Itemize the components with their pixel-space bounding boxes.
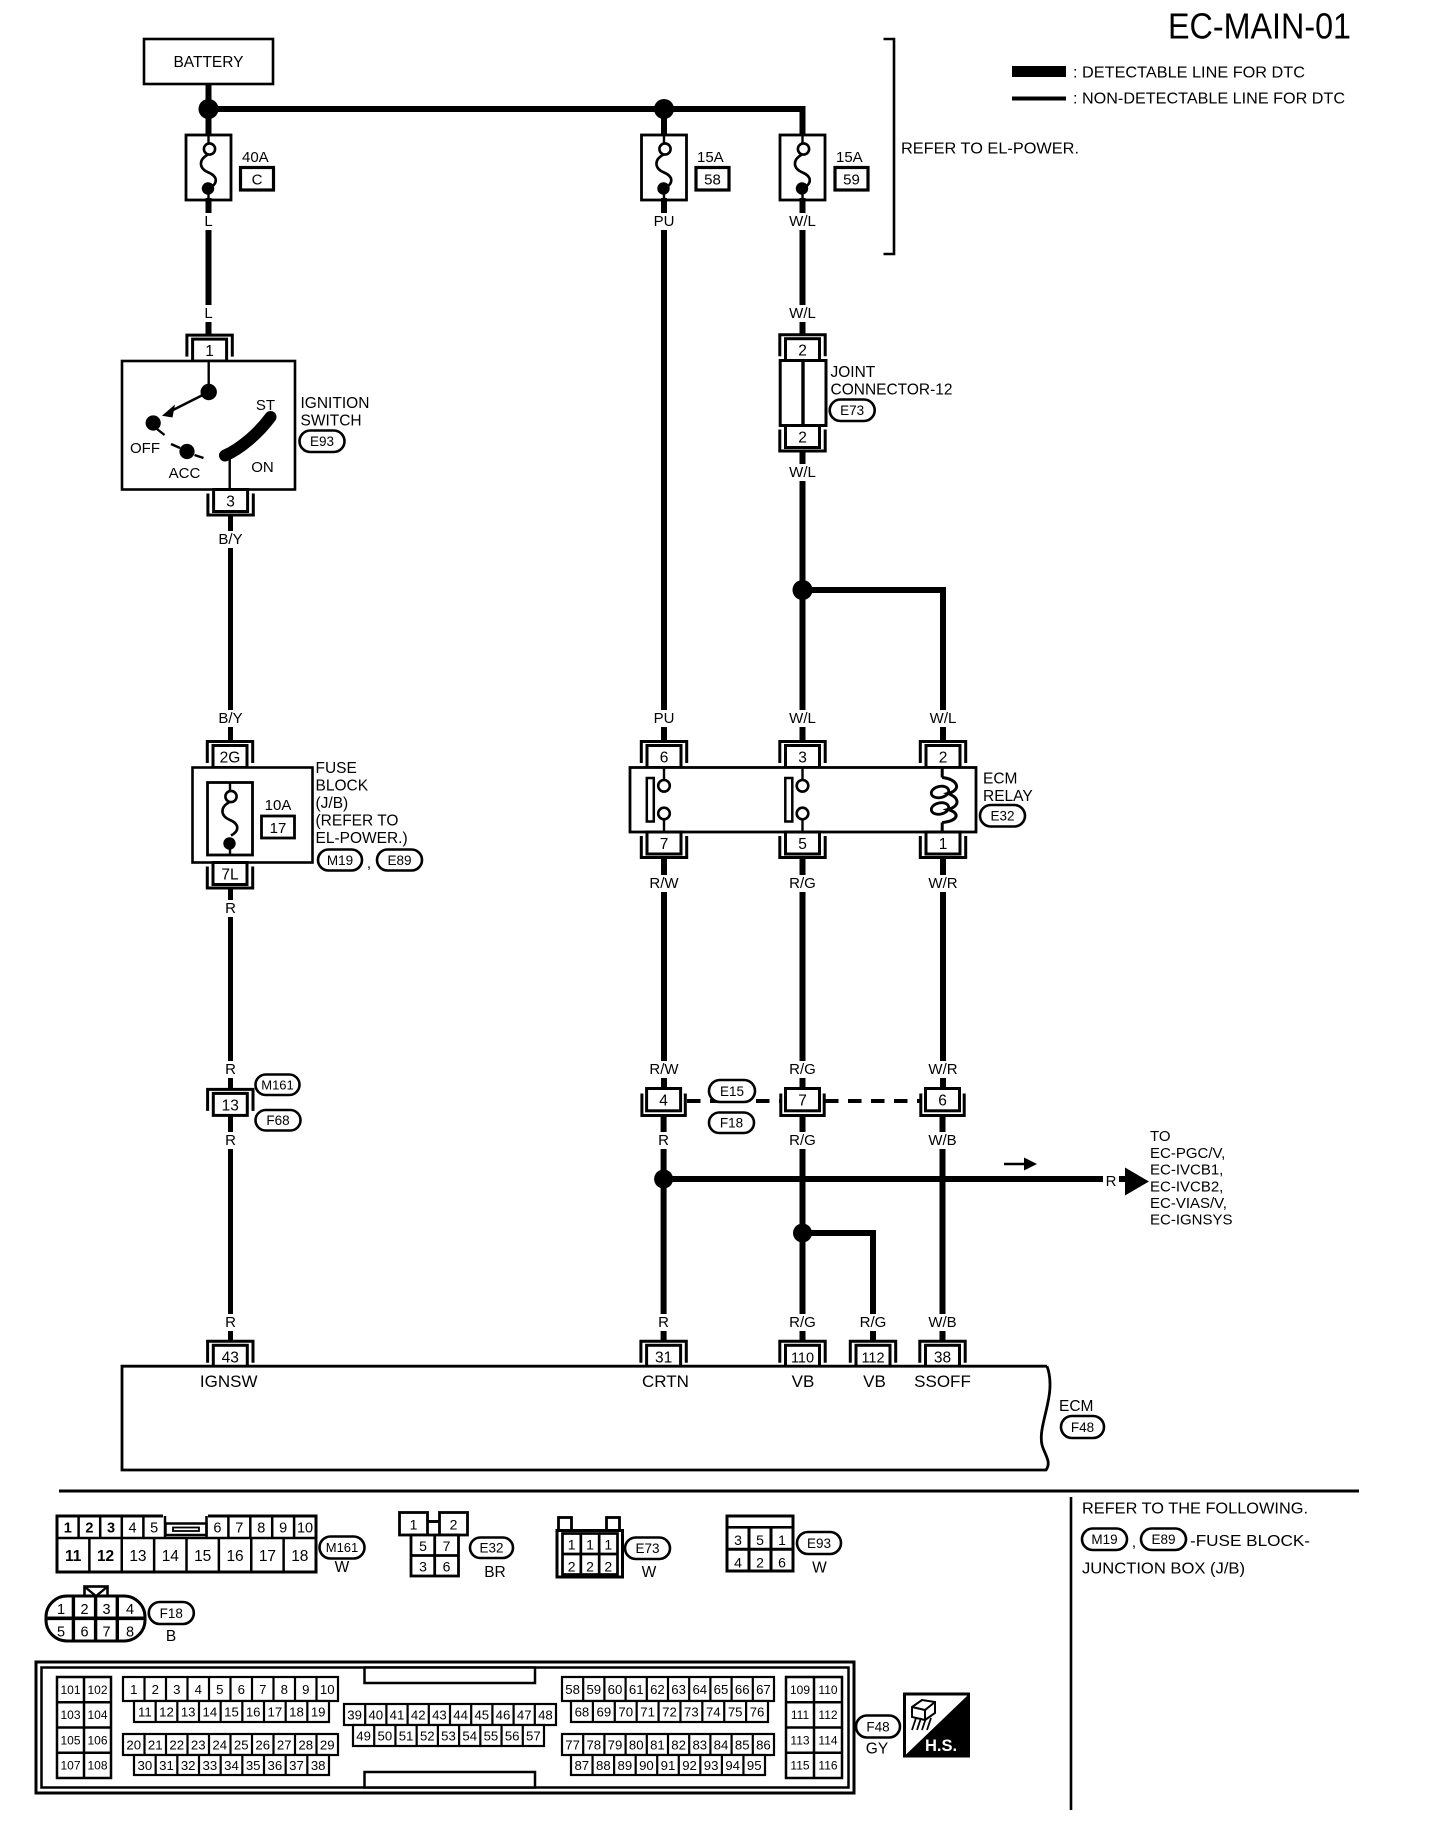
svg-text:71: 71 bbox=[640, 1704, 655, 1719]
svg-text:60: 60 bbox=[608, 1682, 623, 1697]
label oval E15 bbox=[709, 1080, 755, 1102]
svg-text:116: 116 bbox=[818, 1759, 837, 1773]
svg-text:47: 47 bbox=[517, 1707, 532, 1722]
svg-text:ST: ST bbox=[256, 397, 275, 414]
svg-text:7: 7 bbox=[443, 1538, 451, 1554]
svg-text:76: 76 bbox=[750, 1704, 765, 1719]
svg-text:14: 14 bbox=[162, 1548, 180, 1565]
svg-text:(REFER TO: (REFER TO bbox=[316, 813, 399, 830]
svg-text:59: 59 bbox=[843, 172, 860, 189]
ECM relay pin 5 bbox=[786, 832, 820, 854]
wire label W/L (below joint connector) bbox=[787, 464, 818, 481]
connector E73 pinout bbox=[559, 1518, 572, 1532]
svg-text:67: 67 bbox=[756, 1682, 771, 1697]
ECM pin 43 bbox=[208, 1341, 253, 1363]
svg-text:2: 2 bbox=[152, 1682, 159, 1697]
svg-text:24: 24 bbox=[212, 1737, 227, 1752]
svg-text:JUNCTION BOX (J/B): JUNCTION BOX (J/B) bbox=[1082, 1561, 1245, 1578]
svg-text:55: 55 bbox=[484, 1728, 499, 1743]
svg-text:W: W bbox=[335, 1559, 350, 1576]
svg-text:58: 58 bbox=[704, 172, 721, 189]
svg-text:PU: PU bbox=[654, 213, 675, 230]
svg-text:16: 16 bbox=[246, 1704, 261, 1719]
svg-text:89: 89 bbox=[618, 1758, 633, 1773]
wire label B/Y (lower) bbox=[215, 710, 246, 727]
svg-text:TO: TO bbox=[1150, 1128, 1171, 1145]
svg-text:62: 62 bbox=[650, 1682, 665, 1697]
svg-text:4: 4 bbox=[129, 1521, 137, 1537]
svg-text:B/Y: B/Y bbox=[218, 710, 242, 727]
svg-text:78: 78 bbox=[586, 1737, 601, 1752]
label oval E89 (footer) bbox=[1141, 1529, 1186, 1551]
svg-text:44: 44 bbox=[453, 1707, 468, 1722]
wire label R (below connector 13) bbox=[223, 1132, 237, 1149]
ECM pin 112 bbox=[850, 1341, 895, 1363]
svg-text:115: 115 bbox=[790, 1759, 809, 1773]
svg-text:IGNSW: IGNSW bbox=[200, 1372, 258, 1391]
svg-text:ECM: ECM bbox=[1059, 1398, 1093, 1415]
ignition switch OFF contact bbox=[146, 415, 161, 430]
svg-text:59: 59 bbox=[586, 1682, 601, 1697]
svg-text:2: 2 bbox=[756, 1555, 764, 1571]
label oval E32 (pinout) bbox=[470, 1538, 513, 1559]
svg-text:6: 6 bbox=[238, 1682, 245, 1697]
wire L fuse C to ignition switch bbox=[206, 198, 212, 336]
svg-text:: NON-DETECTABLE LINE FOR DTC: : NON-DETECTABLE LINE FOR DTC bbox=[1073, 91, 1345, 108]
svg-text:114: 114 bbox=[818, 1733, 837, 1747]
svg-text:FUSE: FUSE bbox=[316, 760, 357, 777]
svg-text:R: R bbox=[225, 1132, 236, 1149]
flow arrow small bbox=[1004, 1163, 1024, 1166]
svg-text:42: 42 bbox=[411, 1707, 426, 1722]
svg-text:M161: M161 bbox=[261, 1077, 294, 1092]
svg-text:33: 33 bbox=[202, 1758, 217, 1773]
junction node battery-left bbox=[199, 99, 219, 119]
svg-text:56: 56 bbox=[505, 1728, 520, 1743]
svg-text:M161: M161 bbox=[326, 1540, 359, 1555]
svg-text:RELAY: RELAY bbox=[983, 788, 1033, 805]
divider line bottom right bbox=[1070, 1497, 1073, 1810]
wire label L (lower) bbox=[201, 305, 215, 322]
label oval F48 (ECM) bbox=[1061, 1416, 1104, 1438]
svg-text:31: 31 bbox=[159, 1758, 174, 1773]
svg-text:R: R bbox=[1106, 1173, 1117, 1190]
svg-text:73: 73 bbox=[684, 1704, 699, 1719]
svg-text:5: 5 bbox=[798, 836, 807, 853]
svg-text:53: 53 bbox=[441, 1728, 456, 1743]
ECM relay pin 7 bbox=[647, 832, 681, 854]
svg-text:17: 17 bbox=[270, 820, 287, 837]
svg-text:EC-MAIN-01: EC-MAIN-01 bbox=[1168, 6, 1351, 47]
svg-text:E93: E93 bbox=[310, 434, 334, 449]
svg-text:E15: E15 bbox=[720, 1084, 744, 1099]
wire label R/G (upper) bbox=[787, 875, 818, 892]
ECM pin 38 bbox=[920, 1341, 965, 1363]
svg-text:103: 103 bbox=[60, 1708, 80, 1722]
wire label W/L (below fuse 59) bbox=[787, 213, 818, 230]
svg-text:2: 2 bbox=[85, 1521, 93, 1537]
svg-text:VB: VB bbox=[863, 1372, 886, 1391]
svg-text:3: 3 bbox=[226, 494, 235, 511]
label oval E89 (fuse block) bbox=[377, 850, 422, 871]
svg-text:86: 86 bbox=[756, 1737, 771, 1752]
svg-text:7L: 7L bbox=[221, 867, 239, 884]
ECM relay pin 1 bbox=[926, 832, 960, 854]
joint connector pin 2 (top) bbox=[780, 335, 825, 357]
svg-text:EC-PGC/V,: EC-PGC/V, bbox=[1150, 1145, 1225, 1162]
svg-text:E89: E89 bbox=[387, 853, 411, 868]
svg-text:3: 3 bbox=[798, 750, 807, 767]
fuse 58 id box bbox=[696, 168, 729, 191]
wire label R (above ECM pin 31) bbox=[656, 1314, 670, 1331]
wire bus to fuse 58 bbox=[661, 109, 667, 136]
svg-text:ACC: ACC bbox=[169, 465, 201, 482]
svg-text:12: 12 bbox=[97, 1548, 114, 1565]
svg-text:108: 108 bbox=[87, 1759, 107, 1773]
svg-text:11: 11 bbox=[138, 1704, 152, 1719]
svg-text:83: 83 bbox=[692, 1737, 707, 1752]
svg-text:B: B bbox=[166, 1628, 176, 1645]
svg-text:88: 88 bbox=[596, 1758, 611, 1773]
svg-text:40A: 40A bbox=[242, 149, 269, 166]
svg-text:CRTN: CRTN bbox=[642, 1372, 689, 1391]
svg-text:84: 84 bbox=[714, 1737, 729, 1752]
svg-text:11: 11 bbox=[65, 1548, 82, 1565]
svg-text:R/W: R/W bbox=[649, 875, 679, 892]
svg-text:OFF: OFF bbox=[130, 440, 160, 457]
svg-text:BR: BR bbox=[484, 1564, 506, 1581]
svg-text:106: 106 bbox=[87, 1733, 107, 1747]
svg-text:79: 79 bbox=[608, 1737, 623, 1752]
svg-text:66: 66 bbox=[735, 1682, 750, 1697]
svg-text:104: 104 bbox=[87, 1708, 107, 1722]
svg-text:17: 17 bbox=[259, 1548, 276, 1565]
svg-text:10A: 10A bbox=[265, 797, 292, 814]
ECM relay pin 2 bbox=[920, 742, 965, 764]
ECM relay pin 6 bbox=[641, 742, 686, 764]
wire W/L joint connector to junction bbox=[800, 453, 806, 593]
svg-text:40: 40 bbox=[368, 1707, 383, 1722]
connector F48 ECM pinout bbox=[36, 1662, 854, 1793]
wire label W/B (above ECM pin 38) bbox=[927, 1314, 958, 1331]
svg-text:R: R bbox=[225, 900, 236, 917]
wire label R (above ECM pin 43) bbox=[223, 1314, 237, 1331]
wire R connector 4 to ECM pin 31 bbox=[661, 1116, 667, 1342]
ECM box bbox=[122, 1366, 1050, 1470]
battery B1 bbox=[144, 39, 273, 84]
ignition switch ACC contact bbox=[179, 444, 194, 459]
svg-text:EC-IGNSYS: EC-IGNSYS bbox=[1150, 1212, 1233, 1229]
svg-text:F18: F18 bbox=[720, 1116, 743, 1131]
svg-text:18: 18 bbox=[289, 1704, 304, 1719]
wire W/R relay pin 1 to connector 6 bbox=[940, 858, 946, 1090]
svg-text:4: 4 bbox=[734, 1555, 742, 1571]
connector E93 pinout bbox=[727, 1516, 793, 1571]
wire label R/W (upper) bbox=[648, 875, 679, 892]
svg-text:5: 5 bbox=[216, 1682, 223, 1697]
fuse 59 id box bbox=[835, 168, 868, 191]
label oval F68 (connector 13) bbox=[256, 1110, 301, 1131]
svg-text:EL-POWER.): EL-POWER.) bbox=[316, 830, 408, 847]
svg-text:65: 65 bbox=[714, 1682, 729, 1697]
svg-text:W/L: W/L bbox=[789, 464, 816, 481]
wire label L (upper) bbox=[201, 213, 215, 230]
label oval M19 (fuse block) bbox=[318, 850, 362, 871]
svg-text:BATTERY: BATTERY bbox=[173, 54, 243, 71]
label oval F18 (pinout) bbox=[149, 1602, 194, 1624]
svg-text:2: 2 bbox=[568, 1559, 576, 1575]
svg-text:7: 7 bbox=[660, 836, 669, 853]
svg-text:E73: E73 bbox=[840, 403, 864, 418]
label oval E73 (joint connector) bbox=[830, 400, 875, 422]
junction node battery-mid bbox=[654, 99, 674, 119]
svg-text:80: 80 bbox=[629, 1737, 644, 1752]
svg-text:6: 6 bbox=[938, 1093, 947, 1110]
svg-text:15: 15 bbox=[194, 1548, 211, 1565]
svg-text:M19: M19 bbox=[327, 853, 353, 868]
svg-text:7: 7 bbox=[259, 1682, 266, 1697]
wire R fuse block to connector 13 bbox=[228, 888, 233, 1089]
svg-text:4: 4 bbox=[195, 1682, 202, 1697]
svg-text:39: 39 bbox=[347, 1707, 362, 1722]
junction node R/G splitter bbox=[793, 1224, 812, 1243]
svg-text:W/B: W/B bbox=[928, 1132, 956, 1149]
svg-text:E32: E32 bbox=[479, 1541, 503, 1556]
wire label R (below fuse block) bbox=[223, 900, 237, 917]
svg-text:21: 21 bbox=[148, 1737, 163, 1752]
svg-text:1: 1 bbox=[568, 1537, 576, 1553]
svg-text:R/G: R/G bbox=[860, 1314, 887, 1331]
dashed link connector 7 to 6 bbox=[825, 1099, 921, 1103]
svg-text:9: 9 bbox=[302, 1682, 309, 1697]
svg-text:SSOFF: SSOFF bbox=[914, 1372, 971, 1391]
legend non-detectable line swatch bbox=[1012, 97, 1066, 101]
label oval F48 (pinout) bbox=[856, 1716, 900, 1738]
svg-text:95: 95 bbox=[747, 1758, 762, 1773]
svg-text:15A: 15A bbox=[836, 149, 863, 166]
svg-text:PU: PU bbox=[654, 710, 675, 727]
svg-text:R/G: R/G bbox=[789, 875, 816, 892]
label oval E93 (ignition switch) bbox=[300, 431, 345, 453]
svg-text:61: 61 bbox=[629, 1682, 644, 1697]
svg-text:2: 2 bbox=[450, 1517, 458, 1533]
svg-text:5: 5 bbox=[150, 1521, 158, 1537]
svg-text:W/L: W/L bbox=[930, 710, 957, 727]
wire label R/G (above ECM pin 110) bbox=[787, 1314, 818, 1331]
svg-text:110: 110 bbox=[791, 1350, 814, 1366]
joint connector body bbox=[780, 361, 826, 426]
wire B/Y ignition switch to fuse block bbox=[228, 515, 233, 741]
svg-text:SWITCH: SWITCH bbox=[301, 413, 362, 430]
wire PU fuse 58 to ECM relay pin 6 bbox=[661, 198, 667, 741]
svg-text:ON: ON bbox=[251, 459, 274, 476]
svg-text:14: 14 bbox=[202, 1704, 217, 1719]
wire R/W relay pin 7 to connector 4 bbox=[661, 858, 667, 1090]
wire R branch to EC pages bbox=[664, 1176, 1126, 1182]
wire label W/B (below connector 6) bbox=[927, 1132, 958, 1149]
wire bus to fuse 59 bbox=[800, 106, 806, 136]
svg-text:102: 102 bbox=[87, 1683, 107, 1697]
fuse C id box C bbox=[241, 168, 274, 191]
svg-text:1: 1 bbox=[939, 836, 948, 853]
H.S. view icon bbox=[905, 1694, 969, 1756]
svg-text:R/G: R/G bbox=[789, 1314, 816, 1331]
arrowhead to EC pages bbox=[1125, 1168, 1149, 1196]
svg-text:6: 6 bbox=[80, 1625, 88, 1641]
junction node R splitter bbox=[654, 1170, 673, 1189]
svg-text:W: W bbox=[812, 1560, 827, 1577]
svg-text:,: , bbox=[1132, 1534, 1136, 1551]
svg-text:16: 16 bbox=[226, 1548, 243, 1565]
svg-text:13: 13 bbox=[129, 1548, 146, 1565]
svg-text:3: 3 bbox=[173, 1682, 180, 1697]
wire W/L right branch down to relay pin 2 bbox=[940, 587, 946, 741]
svg-text:37: 37 bbox=[289, 1758, 304, 1773]
svg-text:13: 13 bbox=[222, 1097, 239, 1114]
ignition switch wiper arrow bbox=[172, 392, 209, 411]
svg-text:43: 43 bbox=[432, 1707, 447, 1722]
svg-text:57: 57 bbox=[526, 1728, 541, 1743]
svg-text:W: W bbox=[642, 1564, 657, 1581]
svg-text:94: 94 bbox=[725, 1758, 740, 1773]
svg-text:2: 2 bbox=[80, 1602, 88, 1618]
svg-text:112: 112 bbox=[818, 1708, 837, 1722]
svg-text:69: 69 bbox=[596, 1704, 611, 1719]
wire label R (below connector 4) bbox=[656, 1132, 670, 1149]
svg-text:19: 19 bbox=[311, 1704, 326, 1719]
svg-text:87: 87 bbox=[574, 1758, 589, 1773]
svg-text:63: 63 bbox=[671, 1682, 686, 1697]
svg-text:93: 93 bbox=[704, 1758, 719, 1773]
svg-text:20: 20 bbox=[126, 1737, 141, 1752]
wire W/L fuse 59 to joint connector bbox=[800, 198, 806, 335]
svg-text:49: 49 bbox=[356, 1728, 371, 1743]
fuse 59 15A bbox=[780, 135, 825, 200]
connector 4 (E15/F18) bbox=[647, 1089, 681, 1111]
svg-text:E73: E73 bbox=[635, 1541, 659, 1556]
svg-text:112: 112 bbox=[861, 1350, 884, 1366]
ignition switch ON-ST actuator arc bbox=[225, 417, 271, 456]
svg-text:2: 2 bbox=[586, 1559, 594, 1575]
svg-text:6: 6 bbox=[660, 750, 669, 767]
svg-text:IGNITION: IGNITION bbox=[301, 395, 370, 412]
svg-text:1: 1 bbox=[778, 1532, 786, 1548]
svg-text:R: R bbox=[658, 1132, 669, 1149]
svg-text:74: 74 bbox=[706, 1704, 721, 1719]
svg-text:17: 17 bbox=[267, 1704, 282, 1719]
ignition switch pin 3 bbox=[214, 490, 248, 512]
svg-text:VB: VB bbox=[792, 1372, 815, 1391]
svg-text:8: 8 bbox=[126, 1625, 134, 1641]
wire label R/G (above ECM pin 112) bbox=[857, 1314, 888, 1331]
ignition switch box bbox=[122, 361, 295, 490]
svg-text:10: 10 bbox=[297, 1521, 313, 1537]
svg-text:64: 64 bbox=[692, 1682, 707, 1697]
fuse C 40A bbox=[186, 135, 231, 200]
svg-text:7: 7 bbox=[235, 1521, 243, 1537]
ignition switch wire to common bbox=[207, 361, 209, 392]
svg-text:38: 38 bbox=[934, 1349, 951, 1366]
label oval M161 (pinout) bbox=[320, 1537, 365, 1559]
svg-text:F48: F48 bbox=[866, 1719, 889, 1734]
svg-text:85: 85 bbox=[735, 1737, 750, 1752]
wire W/L junction to right branch bbox=[803, 587, 947, 593]
svg-text:1: 1 bbox=[64, 1521, 72, 1537]
svg-text:W/R: W/R bbox=[928, 875, 957, 892]
wire label W/R (lower) bbox=[927, 1061, 958, 1078]
label oval E32 (ECM relay) bbox=[980, 805, 1025, 827]
ECM relay contact 6-7 bbox=[647, 778, 654, 822]
fuse block pin 7L bbox=[213, 863, 247, 885]
bracket for REFER TO EL-POWER bbox=[884, 39, 895, 254]
svg-text:5: 5 bbox=[756, 1532, 764, 1548]
svg-text:46: 46 bbox=[496, 1707, 511, 1722]
svg-text:CONNECTOR-12: CONNECTOR-12 bbox=[831, 382, 953, 399]
wire R/G connector 7 to ECM pin 110 bbox=[800, 1116, 806, 1342]
svg-text:W/R: W/R bbox=[928, 1061, 957, 1078]
svg-text:8: 8 bbox=[257, 1521, 265, 1537]
svg-text:91: 91 bbox=[661, 1758, 676, 1773]
svg-text:107: 107 bbox=[60, 1759, 80, 1773]
svg-text:109: 109 bbox=[790, 1683, 810, 1697]
svg-text:2: 2 bbox=[939, 750, 948, 767]
svg-text:4: 4 bbox=[659, 1093, 668, 1110]
svg-text:41: 41 bbox=[390, 1707, 405, 1722]
label oval M161 (connector 13) bbox=[256, 1075, 300, 1096]
svg-text:EC-IVCB1,: EC-IVCB1, bbox=[1150, 1162, 1223, 1179]
svg-text:2: 2 bbox=[604, 1559, 612, 1575]
svg-text:W/L: W/L bbox=[789, 710, 816, 727]
svg-text:10: 10 bbox=[320, 1682, 335, 1697]
wire label R (above connector 13) bbox=[223, 1061, 237, 1078]
fuse 58 15A bbox=[642, 135, 687, 200]
label oval E73 (pinout) bbox=[625, 1538, 670, 1560]
svg-text:F18: F18 bbox=[160, 1606, 183, 1621]
svg-text:3: 3 bbox=[419, 1559, 427, 1575]
connector 7 (E15/F18) bbox=[786, 1089, 820, 1111]
ignition switch common node bbox=[201, 384, 217, 400]
svg-text:3: 3 bbox=[734, 1532, 742, 1548]
svg-text:29: 29 bbox=[320, 1737, 335, 1752]
svg-text:W/L: W/L bbox=[789, 213, 816, 230]
wire label W/L (above relay pin 2) bbox=[927, 710, 958, 727]
svg-text:43: 43 bbox=[222, 1349, 239, 1366]
wire R connector 13 to ECM pin 43 bbox=[228, 1117, 233, 1342]
ECM relay pin 3 bbox=[780, 742, 825, 764]
wire label W/L (above relay pin 3) bbox=[787, 710, 818, 727]
svg-text:27: 27 bbox=[277, 1737, 292, 1752]
svg-text:92: 92 bbox=[682, 1758, 697, 1773]
svg-text:15A: 15A bbox=[697, 149, 724, 166]
svg-text:BLOCK: BLOCK bbox=[316, 778, 369, 795]
ignition switch wire to pin 3 bbox=[228, 452, 230, 490]
wire label R/G (lower) bbox=[787, 1061, 818, 1078]
svg-text:B/Y: B/Y bbox=[218, 531, 242, 548]
svg-text:R/G: R/G bbox=[789, 1061, 816, 1078]
svg-text:22: 22 bbox=[169, 1737, 184, 1752]
wire R/G branch down to ECM pin 112 bbox=[870, 1230, 876, 1341]
joint connector pin 2 (bottom) bbox=[786, 426, 820, 448]
ECM pin 110 bbox=[780, 1341, 825, 1363]
separator line bbox=[59, 1490, 1359, 1493]
svg-text:77: 77 bbox=[565, 1737, 580, 1752]
svg-text:4: 4 bbox=[126, 1602, 134, 1618]
svg-text:REFER TO THE FOLLOWING.: REFER TO THE FOLLOWING. bbox=[1082, 1501, 1308, 1518]
svg-text:E32: E32 bbox=[990, 809, 1014, 824]
svg-text:3: 3 bbox=[107, 1521, 115, 1537]
svg-text:EC-VIAS/V,: EC-VIAS/V, bbox=[1150, 1195, 1227, 1212]
svg-text:110: 110 bbox=[818, 1683, 837, 1697]
